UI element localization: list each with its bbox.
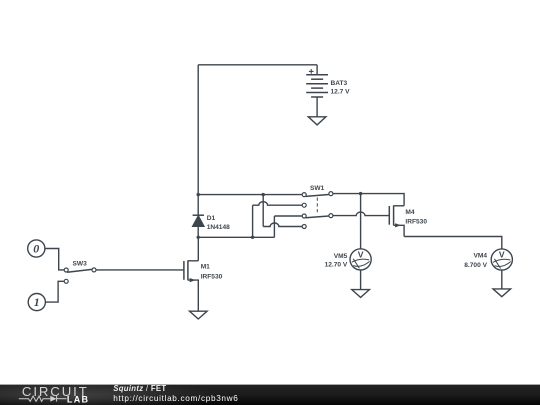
wire node A to SW1 T1 <box>198 194 302 196</box>
wire riser x252.6 <box>252 205 254 237</box>
node 1 <box>28 294 45 311</box>
wire SW1 T2 to drain-node riser with hop over x263.2 <box>253 202 303 206</box>
junction node A (198,194.6) <box>197 193 200 196</box>
wire riser from rail junction down <box>262 195 264 227</box>
svg-text:IRF530: IRF530 <box>201 274 223 281</box>
wire to SW1 T3 <box>274 215 302 217</box>
ground (VM5) <box>352 290 370 298</box>
label M4 IRF530 <box>405 209 427 225</box>
wire node A through diode to node B <box>197 195 199 238</box>
label VM4 value <box>464 253 487 269</box>
label VM5 value <box>325 253 348 269</box>
ground (M1) <box>190 311 208 319</box>
svg-text:V: V <box>499 250 505 260</box>
ground (VM4) <box>493 289 511 297</box>
svg-text:M1: M1 <box>201 264 210 271</box>
svg-text:M4: M4 <box>405 209 414 216</box>
svg-text:LAB: LAB <box>67 394 89 404</box>
wire drain rail y237.3 <box>198 236 274 238</box>
svg-text:1N4148: 1N4148 <box>207 224 230 231</box>
wire top rail V+ <box>198 64 317 66</box>
svg-text:BAT3: BAT3 <box>331 80 348 87</box>
svg-text:0: 0 <box>33 242 39 256</box>
switch SW1 <box>302 192 333 229</box>
svg-text:IRF530: IRF530 <box>405 219 427 226</box>
svg-text:SW3: SW3 <box>73 260 88 267</box>
wire riser x274.4 up <box>273 216 275 237</box>
wire SW3 common to M1 gate <box>96 269 184 271</box>
voltmeter VM5 <box>350 249 371 270</box>
junction (360.6,193.6) <box>359 192 362 195</box>
ground (battery) <box>308 117 326 125</box>
svg-text:Squintz / FET: Squintz / FET <box>113 384 166 393</box>
svg-text:12.70 V: 12.70 V <box>325 262 348 269</box>
battery BAT3 <box>306 65 328 97</box>
wire SW1 R1 to M4 drain <box>333 194 404 206</box>
switch SW3 label <box>73 260 88 267</box>
wire junction to VM5 <box>360 194 362 249</box>
wire node 1 to SW3 throw2 <box>45 281 64 302</box>
svg-text:8.700 V: 8.700 V <box>464 262 487 269</box>
junction (252.6,237.3) <box>251 236 254 239</box>
transistor M4 <box>389 205 404 236</box>
footer bar <box>0 385 540 405</box>
wire VM4 to ground <box>501 270 503 289</box>
svg-text:12.7 V: 12.7 V <box>331 88 351 95</box>
voltmeter VM4 <box>491 249 512 270</box>
label M1 IRF530 <box>201 264 223 281</box>
wire SW1 R2 to M4 gate with hop over x360.6 <box>333 212 389 215</box>
wire battery to ground <box>316 97 318 117</box>
wire node 0 to SW3 throw1 <box>45 249 64 270</box>
wire VM5 to ground <box>360 270 362 289</box>
svg-text:D1: D1 <box>207 215 216 222</box>
battery plus sign <box>309 69 314 74</box>
transistor M1 <box>184 260 198 311</box>
junction node B (198,237.3) <box>197 236 200 239</box>
wire M4 source to VM4 <box>404 237 502 249</box>
svg-text:1: 1 <box>34 295 40 309</box>
svg-text:SW1: SW1 <box>310 185 325 192</box>
node 0 <box>28 240 45 257</box>
wire M1 drain up to node B <box>197 237 199 260</box>
diode D1 <box>193 215 204 226</box>
svg-text:http://circuitlab.com/cpb3nw6: http://circuitlab.com/cpb3nw6 <box>113 394 238 403</box>
junction on rail (263,194.6) <box>262 193 265 196</box>
logo resistor-diode graphic <box>19 396 67 402</box>
svg-text:VM5: VM5 <box>334 253 348 260</box>
wire V+ vertical down to node A <box>197 65 199 195</box>
label D1 1N4148 <box>207 215 230 231</box>
switch SW3 <box>64 268 96 283</box>
label BAT3 value <box>331 80 351 95</box>
wire to SW1 T4 with hop over x274.4 <box>263 223 302 226</box>
svg-text:VM4: VM4 <box>473 253 487 260</box>
switch SW1 label <box>310 185 325 192</box>
svg-text:V: V <box>358 249 364 259</box>
